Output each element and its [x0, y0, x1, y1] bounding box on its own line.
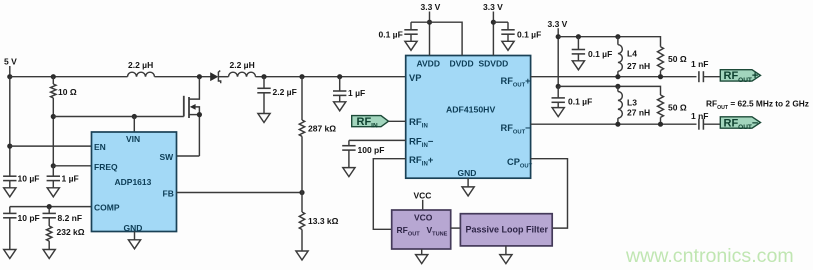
- svg-text:1 µF: 1 µF: [348, 88, 365, 98]
- wire 1uF top lead: [52, 166, 54, 176]
- wire main rail segment 1: [10, 76, 128, 78]
- svg-text:FB: FB: [163, 189, 174, 199]
- wire EN: [10, 145, 92, 147]
- inductor L4: [618, 45, 622, 72]
- inductor L3: [618, 92, 622, 119]
- wire SW to MOSFET: [177, 155, 200, 157]
- capacitor C-100pF plates: [342, 145, 355, 147]
- wire 287k bottom lead: [301, 136, 303, 192]
- svg-text:RFIN−: RFIN−: [409, 136, 434, 149]
- capacitor C-1nF-top plates: [698, 71, 700, 82]
- connector RFout+ flag: [720, 70, 760, 81]
- resistor R-50-bottom: [658, 95, 664, 117]
- node junction EN: [7, 144, 12, 149]
- wire C-100pF ground stem: [348, 150, 350, 168]
- resistor R-232k: [47, 226, 52, 241]
- svg-text:0.1 µF: 0.1 µF: [379, 29, 403, 39]
- svg-text:3.3 V: 3.3 V: [548, 19, 568, 29]
- diode D1 schottky cathode bar: [218, 71, 220, 84]
- svg-text:287 kΩ: 287 kΩ: [308, 124, 336, 134]
- capacitor C-10pF plates: [3, 212, 16, 214]
- capacitor C-1uF-VP plates: [333, 90, 346, 92]
- wire 50ohm bottom lead: [660, 117, 662, 124]
- block VCO body: [392, 210, 451, 249]
- node junction 3.3V output: [556, 34, 561, 39]
- node junction bottom bias: [556, 84, 561, 89]
- wire C-0.1uF-B ground stem: [507, 34, 509, 41]
- node junction COMP: [47, 204, 52, 209]
- wire RFin- horizontal: [349, 139, 406, 141]
- resistor R-287k: [299, 120, 304, 136]
- wire C-0.1uF-D ground stem: [557, 102, 559, 107]
- wire rail segment 4: [256, 76, 406, 78]
- svg-text:13.3 kΩ: 13.3 kΩ: [308, 216, 339, 226]
- resistor R-50-top: [658, 47, 664, 71]
- capacitor C-0.1uF-D lead: [557, 86, 559, 98]
- capacitor C-1nF-bottom plates: [698, 119, 700, 130]
- ground under C-1uF: [47, 188, 59, 197]
- wire C-2.2uF ground stem: [263, 93, 265, 114]
- node junction 5V rail: [7, 74, 12, 79]
- ground under C-1uF-VP: [334, 102, 346, 111]
- svg-text:1 µF: 1 µF: [62, 174, 79, 184]
- svg-text:1 nF: 1 nF: [691, 59, 708, 69]
- svg-text:SDVDD: SDVDD: [479, 59, 509, 69]
- svg-text:3.3 V: 3.3 V: [421, 2, 441, 12]
- wire 10ohm to VIN node: [52, 98, 54, 166]
- svg-text:2.2 µF: 2.2 µF: [273, 87, 297, 97]
- ground under 232k: [43, 250, 55, 259]
- capacitor C-2.2uF lead: [263, 77, 265, 88]
- svg-text:www.cntronics.com: www.cntronics.com: [625, 245, 794, 267]
- wire PLF ground stem: [505, 246, 507, 255]
- ground under C-100pF: [343, 168, 355, 177]
- IC U2 ADF4150HV body: [406, 56, 531, 179]
- wire 8.2nF to 232k: [48, 218, 50, 226]
- wire 13.3k top lead: [301, 193, 303, 213]
- wire 5V stem: [9, 66, 11, 77]
- wire 1nF to RFout- connector: [703, 123, 720, 125]
- wire L4 bottom lead: [617, 71, 619, 76]
- capacitor C-0.1uF-D plates: [552, 97, 565, 99]
- node junction 3.3V right: [491, 20, 496, 25]
- wire C-0.1uF-C ground stem: [577, 54, 579, 61]
- wire FB horizontal: [177, 192, 303, 194]
- svg-text:FREQ: FREQ: [94, 162, 118, 172]
- wire RFin to box: [389, 120, 406, 122]
- wire C-1uF-VP ground stem: [339, 95, 341, 101]
- wire C-0.1uF-A ground stem: [410, 34, 412, 41]
- wire rail segment 2: [155, 76, 211, 78]
- node junction VIN stem: [132, 114, 137, 119]
- wire C-1uF ground stem: [52, 181, 54, 188]
- ground under C-0.1uF-D: [552, 108, 564, 117]
- svg-text:5 V: 5 V: [4, 57, 17, 67]
- ground under C-10uF: [4, 188, 16, 197]
- capacitor C-1uF plates: [47, 175, 60, 177]
- wire VCC stem: [422, 200, 424, 210]
- wire C-10pF ground stem: [9, 218, 11, 250]
- ground under ADF4150HV: [462, 187, 474, 196]
- svg-text:VCO: VCO: [414, 213, 433, 223]
- svg-text:0.1 µF: 0.1 µF: [588, 49, 612, 59]
- capacitor C-0.1uF-B lead: [507, 22, 509, 30]
- transistor Q1 source stub: [189, 114, 199, 116]
- svg-text:GND: GND: [458, 168, 477, 178]
- svg-text:8.2 nF: 8.2 nF: [58, 213, 83, 223]
- wire L3 top lead: [617, 86, 619, 91]
- resistor R-10ohm: [51, 84, 56, 98]
- ground under ADP1613: [128, 240, 140, 249]
- wire 3.3V stem right / SDVDD: [492, 12, 494, 56]
- capacitor C-8.2nF lead: [48, 207, 50, 214]
- ground under C-2.2uF: [258, 114, 270, 123]
- wire COMP: [10, 206, 92, 208]
- svg-text:2.2 µH: 2.2 µH: [128, 60, 153, 70]
- svg-text:AVDD: AVDD: [417, 59, 440, 69]
- capacitor C-0.1uF-B plates: [501, 29, 514, 31]
- ground under C-10pF: [4, 250, 16, 259]
- ground under C-0.1uF-B: [502, 41, 514, 50]
- svg-text:3.3 V: 3.3 V: [483, 2, 503, 12]
- capacitor C-0.1uF-A plates: [404, 29, 417, 31]
- node junction VIN wire left: [51, 114, 56, 119]
- svg-text:DVDD: DVDD: [450, 59, 474, 69]
- node junction L3 bottom: [615, 122, 620, 127]
- svg-text:VIN: VIN: [126, 134, 140, 144]
- wire VIN stem to box: [133, 117, 135, 133]
- node junction FB divider: [299, 190, 304, 195]
- svg-text:50 Ω: 50 Ω: [668, 54, 687, 64]
- wire RFin+ to VCO: [373, 159, 405, 230]
- transistor Q1 channel bar: [188, 97, 190, 118]
- svg-text:L3: L3: [627, 98, 637, 108]
- ground under C-0.1uF-A: [405, 41, 417, 50]
- node junction 3.3V left: [427, 20, 432, 25]
- svg-text:0.1 µF: 0.1 µF: [568, 97, 592, 107]
- capacitor C-0.1uF-C lead: [577, 37, 579, 50]
- svg-text:VCC: VCC: [414, 190, 432, 200]
- svg-text:L4: L4: [627, 49, 637, 59]
- node junction source: [197, 112, 202, 117]
- connector RFin flag: [352, 116, 389, 127]
- svg-text:100 pF: 100 pF: [358, 145, 385, 155]
- capacitor C-0.1uF-C plates: [572, 49, 585, 51]
- node junction 1uF VP: [337, 74, 342, 79]
- wire 232k ground stem: [48, 241, 50, 249]
- ground under 13.3k: [296, 251, 308, 260]
- wire 50ohm top bottom lead: [660, 71, 662, 77]
- transistor Q1 body stub: [195, 107, 199, 156]
- wire 3.3V stem left: [429, 12, 431, 56]
- node junction 287k top: [299, 74, 304, 79]
- wire ADP GND stem: [134, 232, 136, 240]
- wire VIN horizontal: [53, 116, 184, 118]
- capacitor C-10pF lead: [9, 207, 11, 214]
- svg-text:2.2 µH: 2.2 µH: [230, 60, 255, 70]
- transistor Q1 body arrow: [190, 104, 196, 110]
- transistor Q1 gate bar: [183, 96, 185, 117]
- svg-text:COMP: COMP: [94, 203, 120, 213]
- node junction L3 top: [615, 84, 620, 89]
- svg-text:27 nH: 27 nH: [627, 108, 650, 118]
- svg-text:1 nF: 1 nF: [691, 111, 708, 121]
- node junction drain: [197, 74, 202, 79]
- svg-text:ADF4150HV: ADF4150HV: [446, 105, 495, 115]
- wire left vertical 5V down: [9, 77, 11, 177]
- inductor L-2.2uH #1: [128, 72, 155, 77]
- svg-text:232 kΩ: 232 kΩ: [57, 227, 85, 237]
- wire 3.3V to 0.1uF left: [411, 21, 430, 23]
- wire 10ohm top lead: [52, 77, 54, 84]
- node junction FREQ: [51, 163, 56, 168]
- resistor R-13.3k: [299, 212, 304, 230]
- svg-text:EN: EN: [94, 142, 106, 152]
- wire VCO ground stem: [421, 249, 423, 255]
- wire 3.3V to 0.1uF right: [493, 21, 508, 23]
- wire FREQ: [53, 165, 91, 167]
- wire Vtune to loop filter: [451, 227, 461, 229]
- capacitor C-8.2nF plates: [43, 212, 56, 214]
- wire 3.3V to DVDD: [430, 22, 463, 55]
- node junction L4 top: [615, 34, 620, 39]
- node junction 50ohm bottom bottom: [658, 122, 663, 127]
- svg-text:GND: GND: [124, 223, 143, 233]
- svg-text:Passive Loop Filter: Passive Loop Filter: [466, 225, 549, 235]
- wire rail segment 3: [218, 76, 228, 78]
- node junction 0.1uF top: [576, 34, 581, 39]
- svg-text:RFIN+: RFIN+: [409, 155, 434, 168]
- wire 1nF to RFout+ connector: [703, 76, 720, 78]
- svg-text:VP: VP: [409, 73, 421, 83]
- wire C-10uF ground stem: [9, 181, 11, 188]
- capacitor C-1uF-VP lead: [339, 77, 341, 91]
- wire ADF GND stem: [467, 178, 469, 187]
- node junction 50ohm top bottom: [658, 74, 663, 79]
- block Passive Loop Filter body: [460, 214, 552, 246]
- wire bottom bias rail: [558, 86, 660, 95]
- node junction L4 bottom: [615, 74, 620, 79]
- wire 287k top lead: [301, 77, 303, 120]
- svg-text:10 µF: 10 µF: [18, 174, 40, 184]
- capacitor C-10uF plates: [3, 175, 16, 177]
- transistor Q1 drain stub: [189, 77, 199, 99]
- wire L3 bottom lead: [617, 118, 619, 124]
- wire CPout to loop filter: [531, 159, 568, 228]
- ground under VCO: [416, 255, 428, 264]
- svg-text:27 nH: 27 nH: [627, 61, 650, 71]
- svg-text:ADP1613: ADP1613: [115, 177, 152, 187]
- wire 3.3V stem output: [557, 28, 559, 86]
- connector RFout- flag: [720, 117, 760, 128]
- wire L4 top lead: [617, 37, 619, 45]
- node junction 10ohm top: [51, 74, 56, 79]
- capacitor C-100pF lead: [348, 140, 350, 145]
- svg-text:50 Ω: 50 Ω: [668, 103, 687, 113]
- svg-text:0.1 µF: 0.1 µF: [517, 29, 541, 39]
- capacitor C-0.1uF-A lead: [410, 22, 412, 30]
- ground under PLF: [500, 255, 512, 264]
- wire 13.3k ground stem: [301, 230, 303, 252]
- wire RFout- rail: [531, 123, 697, 125]
- capacitor C-2.2uF plates: [257, 87, 270, 89]
- svg-text:SW: SW: [160, 152, 175, 162]
- diode D1 schottky triangle: [210, 72, 218, 81]
- wire RFout+ rail: [531, 76, 697, 78]
- IC U1 ADP1613 body: [92, 132, 177, 232]
- svg-text:10 Ω: 10 Ω: [58, 87, 77, 97]
- inductor L-2.2uH #2: [229, 72, 256, 77]
- node junction C-2.2uF: [261, 74, 266, 79]
- wire top bias rail: [558, 37, 660, 47]
- svg-text:10 pF: 10 pF: [18, 213, 40, 223]
- ground under C-0.1uF-C: [572, 61, 584, 70]
